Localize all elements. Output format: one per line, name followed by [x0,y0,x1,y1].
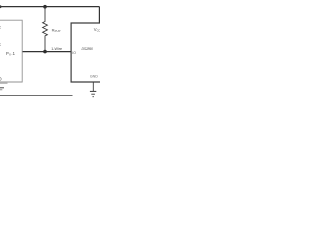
wire GND pin to ground [92,82,94,91]
wire 1-Wire bus [22,51,71,53]
wire from top rail down to DS28xx VCC pin [98,7,100,23]
svg-text:DS2890: DS2890 [82,47,93,51]
microcontroller U1 box (cut off at left) [0,20,22,82]
ground symbol (DS28xx) bar 2 [91,93,95,95]
svg-text:GND: GND [90,74,98,78]
IC DS28xx box (cut off at right) [71,23,101,82]
node left edge junction dot (cut off) [0,5,2,8]
ground symbol (µC, cut off) bar 2 [0,87,4,89]
node junction dot on 1-Wire bus [43,50,47,54]
wire bottom return rail [0,95,73,97]
svg-text:C: C [0,25,2,29]
svg-text:RPUP: RPUP [52,28,61,34]
ground symbol (DS28xx) bar 3 [93,96,94,98]
svg-text:VCC: VCC [94,27,100,33]
ground symbol (µC, cut off) bar 3 [0,89,2,91]
wire VCC top rail [0,6,99,8]
svg-text:PX.1: PX.1 [6,51,16,57]
svg-text:0: 0 [0,76,2,82]
node junction dot top of resistor [43,5,47,9]
svg-text:IO: IO [72,51,76,55]
svg-text:C: C [0,43,2,47]
svg-text:1-Wire: 1-Wire [51,47,62,51]
ground symbol (µC, cut off) bar 1 [0,82,8,84]
resistor RPUP [43,7,48,52]
ground symbol (DS28xx) bar 1 [90,90,96,92]
